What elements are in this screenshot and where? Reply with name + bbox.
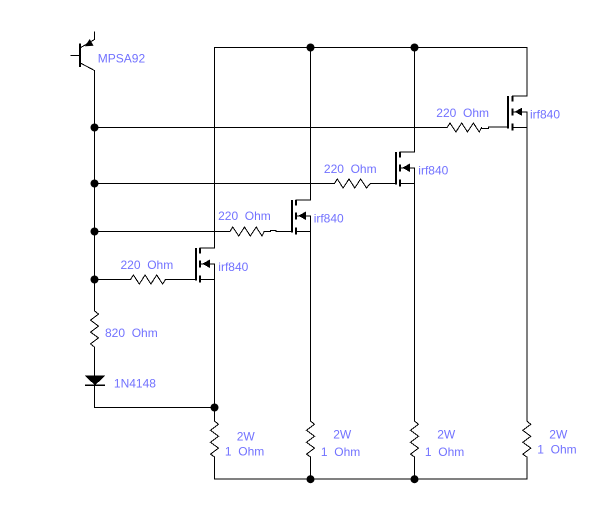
resistor 1 Ohm 2W (leg 1)	[211, 421, 219, 457]
svg-text:220 Ohm: 220 Ohm	[324, 162, 377, 176]
node	[91, 124, 99, 132]
node	[307, 475, 315, 483]
mosfet U4 irf840	[508, 48, 527, 422]
svg-text:1 Ohm: 1 Ohm	[425, 445, 464, 459]
node	[91, 228, 99, 236]
node	[411, 44, 419, 52]
svg-text:1 Ohm: 1 Ohm	[225, 445, 264, 459]
resistor 220 Ohm (M1 gate)	[131, 275, 166, 284]
node	[307, 44, 315, 52]
svg-text:2W: 2W	[333, 428, 352, 442]
svg-text:220 Ohm: 220 Ohm	[121, 258, 174, 272]
wire	[310, 457, 312, 479]
resistor 1 Ohm 2W (leg 2)	[307, 421, 315, 457]
wire	[526, 457, 528, 479]
svg-text:1 Ohm: 1 Ohm	[537, 443, 576, 457]
svg-text:820 Ohm: 820 Ohm	[105, 326, 158, 340]
node	[91, 276, 99, 284]
mosfet U2 irf840	[292, 48, 311, 422]
wire	[94, 385, 96, 407]
svg-text:1 Ohm: 1 Ohm	[321, 445, 360, 459]
node	[411, 475, 419, 483]
svg-text:220 Ohm: 220 Ohm	[436, 106, 489, 120]
mosfet U1 irf840	[196, 48, 215, 422]
wire top rail	[215, 47, 527, 49]
resistor 820 Ohm	[91, 311, 99, 347]
svg-text:irf840: irf840	[314, 211, 344, 225]
resistor 1 Ohm 2W (leg 4)	[523, 421, 531, 457]
resistor 220 Ohm (M2 gate)	[230, 227, 264, 236]
svg-text:MPSA92: MPSA92	[98, 52, 146, 66]
node	[211, 404, 219, 412]
svg-text:220 Ohm: 220 Ohm	[218, 209, 271, 223]
wire	[94, 347, 96, 376]
diode D1 1N4148	[85, 376, 105, 386]
svg-text:irf840: irf840	[218, 260, 248, 274]
svg-text:2W: 2W	[437, 428, 456, 442]
wire left rail (collector bus)	[94, 71, 96, 311]
svg-text:2W: 2W	[549, 428, 568, 442]
svg-text:irf840: irf840	[418, 164, 448, 178]
wire	[482, 127, 509, 128]
resistor 1 Ohm 2W (leg 3)	[411, 421, 419, 457]
svg-text:1N4148: 1N4148	[114, 376, 156, 390]
wire	[414, 457, 416, 479]
wire gate M3	[95, 183, 335, 185]
resistor 220 Ohm (M3 gate)	[334, 179, 370, 188]
wire gate M2	[95, 231, 230, 233]
mosfet U3 irf840	[396, 48, 415, 422]
wire	[370, 183, 396, 185]
resistor 220 Ohm (M4 gate)	[447, 123, 482, 132]
wire	[214, 457, 216, 479]
transistor Q1 MPSA92	[71, 32, 95, 71]
wire bottom rail	[215, 478, 527, 480]
wire	[95, 407, 215, 409]
wire	[166, 279, 196, 281]
wire gate M4	[95, 127, 448, 129]
svg-text:2W: 2W	[237, 430, 256, 444]
svg-text:irf840: irf840	[530, 108, 560, 122]
wire gate M1	[95, 279, 131, 281]
wire	[264, 230, 292, 231]
node	[91, 180, 99, 188]
